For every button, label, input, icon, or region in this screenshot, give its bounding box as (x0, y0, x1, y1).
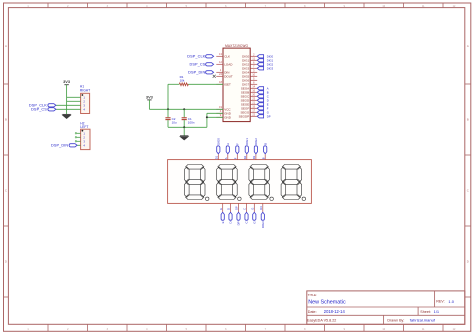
svg-text:DIG3: DIG3 (267, 67, 274, 71)
7-segment digit 2 (217, 165, 241, 201)
netport DIG3 (display bottom) (261, 212, 264, 220)
svg-text:B: B (5, 118, 7, 122)
svg-text:13: 13 (219, 52, 222, 56)
svg-text:DIG1: DIG1 (245, 138, 249, 145)
svg-text:G: G (252, 221, 256, 224)
wire to H1 pin1 (67, 96, 81, 98)
svg-text:8: 8 (253, 80, 255, 84)
netport DIG2 (chip) (257, 63, 263, 66)
netport DIG1 (chip) (257, 59, 263, 62)
svg-text:DP: DP (267, 115, 271, 119)
netport E (display bottom) (221, 212, 224, 220)
header H2 pin1 mark (82, 130, 84, 132)
netport SEG E (chip) (257, 103, 263, 106)
svg-text:DIG2: DIG2 (254, 138, 258, 145)
svg-text:10k: 10k (180, 78, 185, 82)
display top pin A (227, 154, 229, 160)
svg-text:RIGHT: RIGHT (80, 88, 90, 92)
wire to H1 pin2 (67, 100, 81, 102)
svg-text:6: 6 (253, 60, 255, 64)
netport DP (display bottom) (237, 212, 240, 220)
wire R1 to riser (168, 83, 179, 85)
svg-text:C: C (243, 208, 247, 210)
svg-text:A: A (267, 87, 269, 91)
svg-text:B: B (261, 157, 265, 159)
svg-text:5: 5 (186, 328, 188, 331)
svg-text:21: 21 (252, 100, 255, 104)
svg-text:1/1: 1/1 (434, 309, 440, 314)
header H1 pin1 mark (82, 94, 84, 96)
power flag 3V3 (VCC rail) (146, 94, 154, 100)
capacitor C1 (182, 118, 187, 120)
wire C2 bottom stub (167, 120, 169, 127)
svg-text:3V3: 3V3 (146, 94, 154, 99)
svg-text:LEFT: LEFT (80, 125, 88, 129)
svg-text:22: 22 (252, 112, 255, 116)
netport DSP_CLK (chip CLK) (206, 55, 214, 58)
svg-text:9: 9 (220, 113, 222, 117)
svg-text:8: 8 (304, 328, 306, 331)
wire DSP_DIN to H2 pin4 (77, 144, 81, 146)
svg-text:TITLE:: TITLE: (308, 293, 317, 297)
header H1 body (81, 93, 90, 113)
wire C2 top stub (167, 109, 169, 117)
svg-text:1: 1 (27, 328, 29, 331)
netport SEG G (chip) (257, 111, 263, 114)
svg-text:17: 17 (252, 108, 255, 112)
display bottom pin G (253, 203, 255, 212)
svg-text:16: 16 (252, 88, 255, 92)
junction on rail at C1 (183, 108, 185, 110)
svg-text:C: C (467, 189, 469, 193)
netport SEG DP (chip) (257, 115, 263, 118)
svg-text:23: 23 (252, 96, 255, 100)
svg-text:B: B (467, 118, 469, 122)
svg-text:D4: D4 (259, 206, 263, 210)
svg-text:D: D (229, 221, 233, 223)
netport SEG C (chip) (257, 95, 263, 98)
svg-text:14: 14 (252, 84, 255, 88)
svg-text:20: 20 (252, 92, 255, 96)
wire ground stub (183, 127, 185, 135)
svg-text:D: D (467, 260, 469, 264)
7-segment digit 4 (281, 165, 305, 201)
svg-text:7: 7 (253, 64, 255, 68)
IC U1 left pins CLK LOAD DIN DOUT ISET VCC GND GND (216, 52, 233, 119)
svg-text:REV:: REV: (436, 300, 444, 304)
IC U1 right pins DIG0-7 SEGA-DP (239, 52, 258, 118)
netport DSP_DIN (left) (69, 144, 77, 147)
svg-text:C: C (267, 95, 269, 99)
svg-text:DIG0: DIG0 (216, 138, 220, 145)
netport DIG3 (chip) (257, 67, 263, 70)
svg-text:Date:: Date: (308, 310, 317, 314)
svg-text:ISET: ISET (224, 83, 231, 87)
wire GND pin 4 (207, 112, 223, 114)
netport SEG A (chip) (257, 87, 263, 90)
svg-text:2: 2 (253, 52, 255, 56)
display top pin D2 (246, 154, 248, 160)
svg-text:A: A (5, 44, 7, 48)
svg-text:New Schematic: New Schematic (308, 299, 346, 305)
svg-text:D2: D2 (243, 155, 247, 159)
svg-text:4: 4 (220, 109, 222, 113)
wire 3V3 rail vertical at H1 (66, 85, 68, 115)
netport DIG2 (display top) (254, 146, 257, 154)
svg-text:1: 1 (220, 68, 222, 72)
svg-text:DIG3: DIG3 (261, 221, 265, 228)
svg-text:1.0: 1.0 (448, 299, 454, 304)
svg-text:10: 10 (382, 328, 385, 331)
svg-text:11: 11 (422, 328, 425, 331)
netport DIG0 (chip) (257, 55, 263, 58)
svg-text:6: 6 (225, 328, 227, 331)
svg-text:9: 9 (344, 328, 346, 331)
display bottom pin DP (238, 203, 240, 212)
svg-text:D3: D3 (252, 155, 256, 159)
wire C1 bottom stub (183, 120, 185, 127)
svg-text:D: D (5, 260, 7, 264)
wire ground rail (168, 126, 207, 128)
svg-text:G: G (267, 111, 269, 115)
svg-text:DIG0: DIG0 (267, 55, 274, 59)
svg-text:D1: D1 (215, 155, 219, 159)
svg-text:DP: DP (235, 206, 239, 210)
display top pin D3 (255, 154, 257, 160)
power flag 3V3 (H1) (63, 79, 71, 85)
netport DIG1 (display top) (245, 146, 248, 154)
svg-text:A: A (467, 44, 469, 48)
svg-text:24: 24 (219, 72, 222, 76)
svg-text:7: 7 (265, 328, 267, 331)
svg-text:D: D (227, 208, 231, 210)
display bottom pin D (230, 203, 232, 212)
svg-text:3: 3 (253, 68, 255, 72)
svg-text:12: 12 (219, 60, 222, 64)
svg-text:12: 12 (453, 328, 456, 331)
ground under capacitors (180, 136, 188, 140)
display bottom pin E (222, 203, 224, 212)
netport C (display bottom) (245, 212, 248, 220)
capacitor C2 (165, 118, 170, 120)
svg-text:DSP_DIN: DSP_DIN (51, 144, 68, 148)
netport DSP_CS (left) (48, 108, 56, 111)
svg-text:C: C (5, 189, 7, 193)
svg-text:fahrizal.manuf: fahrizal.manuf (410, 318, 436, 323)
junction ground rail (183, 126, 185, 128)
7-segment digit 3 (249, 165, 273, 201)
svg-text:DIG1: DIG1 (267, 59, 274, 63)
title block (307, 291, 465, 324)
netport D (display bottom) (229, 212, 232, 220)
svg-text:19: 19 (219, 105, 222, 109)
display top pin D1 (217, 154, 219, 160)
svg-text:10: 10 (252, 72, 255, 76)
svg-text:Drawn By:: Drawn By: (387, 319, 404, 323)
wire riser R1 to VCC rail (167, 84, 169, 109)
netport B (display top) (264, 146, 267, 154)
svg-text:E: E (267, 103, 269, 107)
netport DSP_CLK (left) (48, 104, 56, 107)
svg-text:GND: GND (224, 116, 232, 120)
svg-text:2018-12-14: 2018-12-14 (324, 309, 346, 314)
svg-text:4: 4 (146, 328, 148, 331)
wire ISET to R1 (188, 83, 223, 85)
netport DSP_CS (chip LOAD) (206, 63, 214, 66)
svg-text:DSP_CS: DSP_CS (190, 63, 206, 67)
display top pin B (264, 154, 266, 160)
svg-text:E: E (221, 221, 225, 223)
netport A (display top) (226, 146, 229, 154)
wire DSP_CS to H1 pin4 (56, 108, 81, 110)
no-connect flag on DOUT (213, 75, 216, 78)
ground under H1 (62, 114, 70, 118)
svg-text:EasyEDA V5.8.22: EasyEDA V5.8.22 (307, 319, 336, 323)
svg-text:10u: 10u (172, 120, 177, 124)
display top pin F (236, 154, 238, 160)
netport F (display top) (236, 146, 239, 154)
svg-text:DOUT: DOUT (224, 75, 233, 79)
svg-text:DSP_CS: DSP_CS (31, 108, 47, 112)
header H1 pin numbers (83, 95, 85, 111)
svg-text:DSP_DIN: DSP_DIN (188, 71, 205, 75)
svg-text:A: A (226, 143, 230, 145)
junction on rail at C2 (167, 108, 169, 110)
junction GND pins (206, 116, 208, 118)
svg-text:C: C (245, 221, 249, 223)
display bottom pin D4 (262, 203, 264, 212)
svg-text:F: F (234, 157, 238, 159)
svg-text:A: A (224, 157, 228, 159)
netport DIG0 (display top) (217, 146, 220, 154)
svg-text:LOAD: LOAD (224, 63, 233, 67)
header H2 body (81, 129, 90, 149)
svg-text:2: 2 (67, 328, 69, 331)
svg-text:Sheet:: Sheet: (420, 310, 431, 314)
display DS1 body (168, 160, 312, 204)
svg-text:11: 11 (252, 56, 255, 60)
svg-text:F: F (235, 143, 239, 145)
svg-text:SEGDP: SEGDP (239, 115, 250, 119)
svg-text:18: 18 (219, 80, 222, 84)
svg-text:5: 5 (253, 76, 255, 80)
svg-text:G: G (251, 208, 255, 210)
svg-text:D: D (267, 99, 269, 103)
svg-text:100n: 100n (188, 120, 195, 124)
svg-text:DIG2: DIG2 (267, 63, 274, 67)
display bottom pin C (246, 203, 248, 212)
svg-text:B: B (267, 91, 269, 95)
wire VCC rail (149, 108, 223, 110)
svg-text:DP: DP (237, 221, 241, 225)
svg-text:15: 15 (252, 104, 255, 108)
svg-text:E: E (219, 208, 223, 210)
netport SEG B (chip) (257, 91, 263, 94)
svg-text:MAX7219CWG: MAX7219CWG (225, 44, 248, 48)
IC U1 MAX7219CWG body (223, 48, 250, 122)
netport SEG D (chip) (257, 99, 263, 102)
header H2 unconnected pin stubs (75, 133, 80, 143)
header H2 pin numbers (83, 131, 85, 147)
netport SEG F (chip) (257, 107, 263, 110)
svg-text:CLK: CLK (224, 55, 230, 59)
svg-text:3: 3 (107, 328, 109, 331)
svg-text:B: B (263, 143, 267, 145)
netport DSP_DIN (chip DIN) (206, 71, 214, 74)
7-segment digit 1 (185, 165, 209, 201)
wire GND drop (206, 113, 208, 127)
wire GND pin 9 (207, 116, 223, 118)
wire DSP_CLK to H1 pin3 (56, 104, 81, 106)
svg-text:3V3: 3V3 (63, 79, 71, 84)
wire C1 top stub (183, 109, 185, 117)
netport G (display bottom) (253, 212, 256, 220)
svg-text:F: F (267, 107, 269, 111)
wire 3V3 stub to rail (148, 100, 150, 109)
svg-text:DSP_CLK: DSP_CLK (187, 55, 205, 59)
resistor R1 (179, 83, 188, 86)
frame zone ticks left/right (4, 84, 471, 297)
